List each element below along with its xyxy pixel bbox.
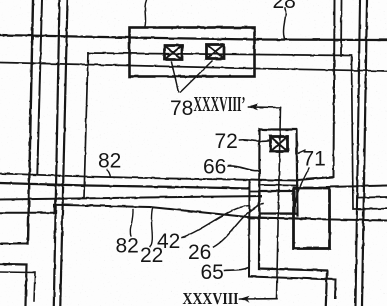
leader lines from squares to label 78 [172,61,213,92]
wire horizontal y174 feeder to assembly top [0,174,250,180]
wire corner y264 left with down leg [0,264,27,305]
leader from label 72 [240,140,269,142]
wire horizontal line2 with corner down right [88,53,387,209]
crossed square S2 [207,45,225,59]
wire vertical V3 left [54,0,60,306]
wire tall rect left edge and channel inner [259,130,327,306]
wire pipe B right [358,196,387,199]
leader from label 65 [225,268,249,271]
wire long bottom line [0,212,55,214]
crossed square S3 [271,137,288,152]
wire inner box top extension [250,191,260,193]
leader from label 42 [182,206,250,238]
component tall valve rectangle [260,130,298,216]
wire vertical V2 left [37,0,42,174]
wire channel outer left vertical [249,180,336,299]
wire horizontal top line1 [0,35,387,40]
wire vertical R5 right [362,0,367,306]
component top manifold box [130,28,255,77]
wire long bottom line right part with jog [55,205,387,221]
leader wavy from label 28 [283,8,285,39]
wire corner y244 left [0,243,28,245]
leader from label 82 upper [107,170,111,178]
wire vertical R4 right [356,0,361,306]
wire assembly second line [259,184,298,187]
leader from label 22 [150,209,153,248]
section arrow top [249,106,281,109]
wire corner y272 left with down leg [0,272,35,301]
wire pipe A right [327,186,387,188]
wire vertical R2 right [340,0,343,56]
wire vertical V4 left [60,0,67,306]
wire pipe A left [0,183,249,189]
component rectangle 71 [294,188,330,249]
wire horizontal line3 [0,63,387,72]
section arrow bottom [240,298,277,300]
wire assembly bottom line [259,213,297,216]
component center assembly top line [250,180,298,181]
crossed square S1 [165,46,183,60]
section line vertical XXXVIII [277,108,281,299]
tick above label 71 [299,150,306,153]
wire vertical V1 left [28,0,33,244]
leader from label 26 [214,204,264,248]
component inner box of assembly [260,191,295,214]
leader from label 66 [229,166,260,171]
leader wavy top of box [145,0,147,26]
wire pipe B left [0,196,261,200]
wire vertical R1 right with corner to assembly [298,0,335,180]
wire vertical drop at x88 [84,53,88,198]
leader from label 82 lower [130,210,133,237]
leader from label 71 [296,168,310,203]
wire assembly lower line [250,217,311,219]
